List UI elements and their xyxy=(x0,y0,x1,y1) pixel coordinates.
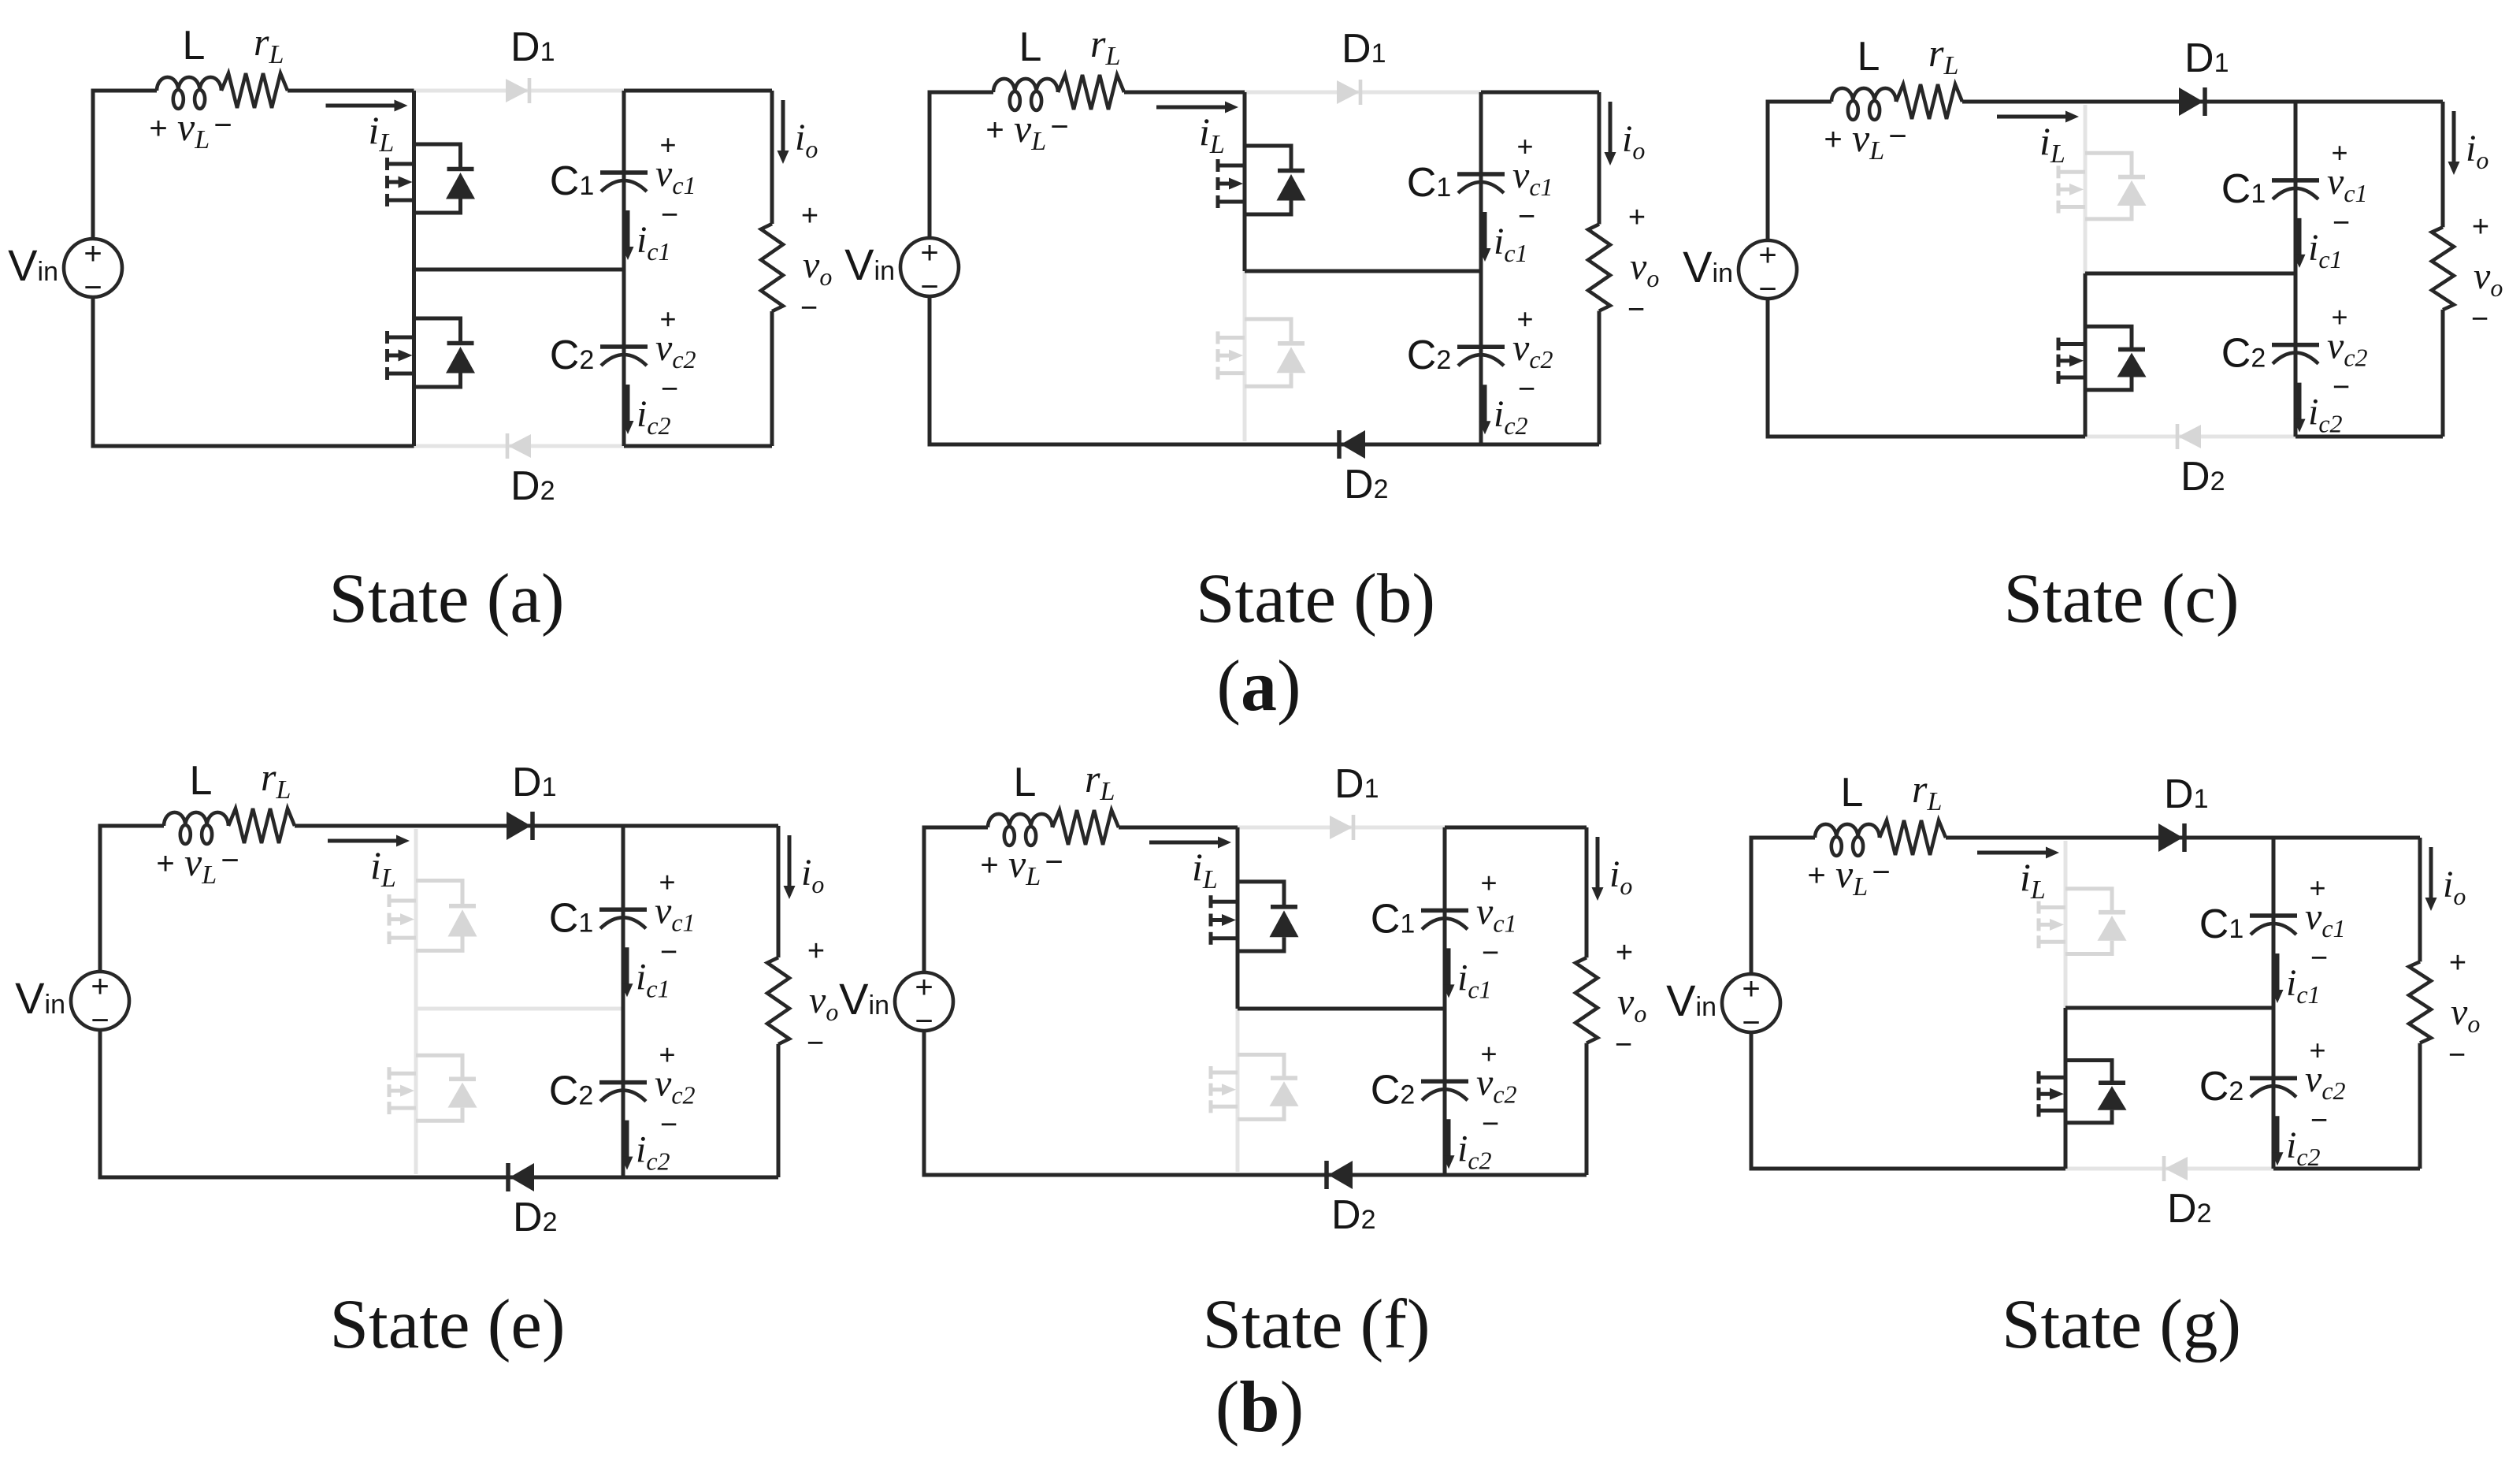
wire load bottom [e] xyxy=(777,1044,781,1177)
wire load bottom [f] xyxy=(1585,1043,1589,1175)
svg-text:C1: C1 xyxy=(1371,896,1415,942)
svg-text:vo: vo xyxy=(1617,981,1646,1028)
wire load top [c] xyxy=(2295,100,2443,104)
capacitor C1 [b] xyxy=(1457,174,1505,193)
resistor rL [a] xyxy=(221,73,288,108)
transistor Q1 (upper MOSFET) [a] xyxy=(388,144,476,213)
svg-text:−: − xyxy=(91,1003,109,1038)
current arrow ic1 [g] xyxy=(2276,953,2280,993)
current arrow ic2 [c] xyxy=(2298,383,2302,422)
svg-text:−: − xyxy=(660,935,677,968)
transistor Q2 (lower MOSFET) [g] xyxy=(2039,1061,2127,1123)
wire D2 branch [e] xyxy=(416,1176,623,1180)
svg-text:State (f): State (f) xyxy=(1202,1286,1430,1363)
svg-text:C2: C2 xyxy=(550,333,594,378)
svg-text:−: − xyxy=(2333,371,2350,404)
wire bus bottom segment [c] xyxy=(2084,273,2088,437)
current arrow io [b] xyxy=(1609,102,1613,155)
wire middle (bus to capacitors) [b] xyxy=(1245,269,1481,273)
wire left bottom [e] xyxy=(100,1030,416,1177)
svg-text:C2: C2 xyxy=(2199,1064,2244,1110)
resistor rL [g] xyxy=(1880,820,1946,855)
svg-text:+: + xyxy=(801,199,818,232)
current arrow ic1 [f] xyxy=(1447,948,1451,987)
svg-text:+: + xyxy=(985,113,1004,147)
svg-text:vL: vL xyxy=(184,840,217,890)
svg-text:vL: vL xyxy=(1014,106,1046,156)
current arrow iL [f] xyxy=(1149,841,1221,845)
svg-text:vL: vL xyxy=(1852,116,1884,165)
svg-text:State (a): State (a) xyxy=(329,560,565,637)
wire D2 branch [g] xyxy=(2065,1167,2273,1171)
wire load top [e] xyxy=(623,824,778,828)
wire D2 branch [c] xyxy=(2085,435,2295,439)
svg-text:vL: vL xyxy=(1835,852,1868,901)
wire capacitor branch [c] xyxy=(2294,102,2298,437)
load resistor [b] xyxy=(1588,225,1610,311)
wire bus bottom segment [b] xyxy=(1243,271,1247,441)
wire top (rL to bus) [g] xyxy=(1946,836,2065,840)
svg-text:−: − xyxy=(661,373,678,406)
current arrow ic1 [a] xyxy=(626,210,630,250)
svg-text:+: + xyxy=(91,969,109,1004)
inductor L [b] xyxy=(993,79,1058,92)
svg-text:vo: vo xyxy=(803,244,832,291)
svg-text:D2: D2 xyxy=(1344,462,1388,507)
svg-text:vL: vL xyxy=(177,105,210,154)
capacitor C2 [b] xyxy=(1457,347,1505,366)
current arrow ic2 [b] xyxy=(1483,385,1487,424)
wire top (rL to bus) [b] xyxy=(1124,91,1245,95)
svg-text:−: − xyxy=(2310,1104,2328,1137)
current arrow ic1 [b] xyxy=(1483,212,1487,251)
wire D1 branch [g] xyxy=(2065,836,2273,840)
current arrow ic2 [e] xyxy=(625,1121,629,1160)
svg-text:+: + xyxy=(920,236,938,270)
svg-text:L: L xyxy=(1014,760,1037,805)
svg-text:+: + xyxy=(980,848,998,883)
svg-text:−: − xyxy=(1482,936,1499,969)
svg-text:(a): (a) xyxy=(1216,645,1301,726)
current arrow io [c] xyxy=(2452,111,2456,165)
wire capacitor branch [b] xyxy=(1479,92,1483,444)
diode D2 [e] xyxy=(510,1163,534,1191)
wire capacitor branch [e] xyxy=(622,826,625,1177)
diode D2 [f] xyxy=(1328,1161,1353,1189)
transistor Q1 (upper MOSFET) [c] xyxy=(2058,153,2147,219)
current arrow io [f] xyxy=(1596,837,1600,890)
load resistor [g] xyxy=(2409,961,2431,1043)
svg-text:rL: rL xyxy=(1928,31,1958,80)
wire left bottom [a] xyxy=(93,297,414,446)
svg-text:iL: iL xyxy=(2039,119,2065,169)
svg-text:rL: rL xyxy=(1090,21,1120,71)
svg-text:D2: D2 xyxy=(2180,454,2225,500)
resistor rL [f] xyxy=(1052,810,1119,845)
voltage source Vin [c] xyxy=(1739,240,1797,299)
wire bottom right [e] xyxy=(623,1176,778,1180)
svg-text:D2: D2 xyxy=(2167,1186,2211,1232)
svg-text:−: − xyxy=(2333,206,2350,240)
transistor Q1 (upper MOSFET) [e] xyxy=(389,881,477,951)
svg-text:vo: vo xyxy=(1630,246,1659,292)
svg-text:−: − xyxy=(2471,303,2488,336)
capacitor C1 [c] xyxy=(2272,180,2319,199)
wire bus top segment [a] xyxy=(412,91,416,269)
svg-text:State (e): State (e) xyxy=(330,1286,566,1363)
svg-text:−: − xyxy=(1518,200,1535,233)
wire middle (bus to capacitors) [f] xyxy=(1238,1007,1445,1011)
svg-text:rL: rL xyxy=(1912,767,1942,816)
current arrow io [e] xyxy=(788,835,792,889)
transistor Q1 (upper MOSFET) [b] xyxy=(1218,146,1306,214)
inductor L [g] xyxy=(1815,824,1880,838)
wire bottom right [f] xyxy=(1445,1173,1587,1177)
svg-text:State (c): State (c) xyxy=(2004,560,2240,637)
load resistor [c] xyxy=(2432,227,2454,310)
svg-text:+: + xyxy=(1807,858,1825,893)
svg-text:io: io xyxy=(801,852,824,898)
diode D1 [g] xyxy=(2158,823,2183,852)
inductor L [e] xyxy=(164,812,228,826)
svg-text:Vin: Vin xyxy=(839,974,889,1024)
wire middle (bus to capacitors) [g] xyxy=(2065,1006,2273,1010)
svg-text:+: + xyxy=(1742,972,1760,1006)
capacitor C1 [e] xyxy=(599,909,647,928)
wire middle (bus to capacitors) [c] xyxy=(2085,272,2295,276)
wire load bottom [g] xyxy=(2418,1043,2422,1169)
svg-text:C2: C2 xyxy=(2221,331,2266,377)
svg-text:+: + xyxy=(2449,946,2466,979)
svg-text:State (b): State (b) xyxy=(1196,560,1435,637)
svg-text:vo: vo xyxy=(809,979,838,1026)
svg-text:D1: D1 xyxy=(512,760,556,805)
wire top (rL to bus) [e] xyxy=(295,824,416,828)
svg-text:+: + xyxy=(1616,936,1633,969)
inductor L [f] xyxy=(988,814,1052,827)
current arrow io [a] xyxy=(781,100,785,154)
wire bottom right [g] xyxy=(2273,1167,2420,1171)
svg-text:D1: D1 xyxy=(2184,35,2229,81)
svg-text:C2: C2 xyxy=(1371,1067,1415,1113)
svg-text:Vin: Vin xyxy=(1683,242,1733,292)
current arrow iL [a] xyxy=(326,104,398,108)
svg-text:(b): (b) xyxy=(1215,1366,1304,1447)
capacitor C2 [c] xyxy=(2272,345,2319,364)
resistor rL [c] xyxy=(1896,84,1962,119)
svg-text:rL: rL xyxy=(254,20,284,69)
svg-text:−: − xyxy=(1050,110,1068,144)
svg-text:−: − xyxy=(920,269,938,304)
wire capacitor branch [f] xyxy=(1443,827,1447,1175)
svg-text:vL: vL xyxy=(1008,842,1041,891)
wire bus top segment [e] xyxy=(414,829,418,1009)
wire top (rL to bus) [f] xyxy=(1119,826,1238,830)
svg-text:−: − xyxy=(1045,845,1063,879)
svg-text:−: − xyxy=(1615,1028,1632,1061)
wire load bottom [a] xyxy=(770,311,774,446)
transistor Q2 (lower MOSFET) [c] xyxy=(2058,326,2147,389)
svg-text:io: io xyxy=(2466,128,2488,174)
svg-text:−: − xyxy=(1482,1107,1499,1140)
svg-text:+: + xyxy=(1758,238,1776,273)
wire left bottom [c] xyxy=(1768,299,2085,437)
svg-text:−: − xyxy=(213,108,232,143)
wire left top (Vin to inductor) [f] xyxy=(924,827,988,972)
wire left top (Vin to inductor) [c] xyxy=(1768,102,1832,240)
svg-text:−: − xyxy=(1888,119,1906,154)
svg-text:+: + xyxy=(149,111,167,146)
svg-text:C2: C2 xyxy=(549,1069,593,1114)
svg-text:D1: D1 xyxy=(2164,771,2208,817)
capacitor C1 [a] xyxy=(600,173,648,191)
wire left bottom [f] xyxy=(924,1031,1238,1175)
wire load top [a] xyxy=(624,89,772,93)
wire load top [f] xyxy=(1445,826,1587,830)
svg-text:−: − xyxy=(1518,373,1535,406)
current arrow ic2 [a] xyxy=(626,385,630,424)
svg-text:C1: C1 xyxy=(550,158,594,204)
svg-text:+: + xyxy=(156,846,174,881)
transistor Q2 (lower MOSFET) [f] xyxy=(1211,1054,1299,1119)
svg-text:L: L xyxy=(1858,34,1880,80)
svg-text:Vin: Vin xyxy=(15,973,65,1023)
voltage source Vin [g] xyxy=(1722,974,1780,1032)
wire bus bottom segment [e] xyxy=(414,1009,418,1174)
capacitor C2 [a] xyxy=(600,347,648,366)
svg-text:io: io xyxy=(2443,864,2466,910)
wire left top (Vin to inductor) [a] xyxy=(93,91,157,239)
wire left top (Vin to inductor) [g] xyxy=(1751,838,1815,974)
svg-text:rL: rL xyxy=(1085,756,1115,806)
svg-text:−: − xyxy=(1872,855,1890,890)
svg-text:L: L xyxy=(1019,24,1042,70)
svg-text:−: − xyxy=(84,270,102,305)
capacitor C2 [e] xyxy=(599,1083,647,1102)
capacitor C2 [g] xyxy=(2250,1078,2297,1097)
svg-text:C1: C1 xyxy=(549,895,593,941)
diode D2 [c] xyxy=(2178,425,2201,448)
voltage source Vin [f] xyxy=(895,972,953,1031)
diode D1 [b] xyxy=(1337,80,1360,104)
svg-text:L: L xyxy=(183,23,206,69)
voltage source Vin [a] xyxy=(64,239,122,297)
inductor L [c] xyxy=(1832,88,1896,102)
wire D2 branch [b] xyxy=(1245,443,1481,447)
svg-text:io: io xyxy=(1609,853,1632,900)
wire top (rL to bus) [c] xyxy=(1962,100,2085,104)
wire bus top segment [g] xyxy=(2064,841,2068,1008)
svg-text:rL: rL xyxy=(261,755,291,805)
wire middle (bus to capacitors) [e] xyxy=(416,1007,623,1011)
wire bottom right [b] xyxy=(1481,443,1599,447)
svg-text:−: − xyxy=(800,292,818,325)
wire middle (bus to capacitors) [a] xyxy=(414,268,625,272)
current arrow ic1 [c] xyxy=(2298,218,2302,258)
svg-text:iL: iL xyxy=(1192,845,1218,894)
wire load top [b] xyxy=(1481,91,1599,95)
svg-text:+: + xyxy=(1628,201,1646,234)
svg-text:−: − xyxy=(1627,293,1645,326)
wire bottom right [c] xyxy=(2295,435,2443,439)
svg-text:D1: D1 xyxy=(1334,761,1379,807)
current arrow ic2 [g] xyxy=(2276,1116,2280,1155)
svg-text:iL: iL xyxy=(2020,855,2046,905)
svg-text:State (g): State (g) xyxy=(2002,1286,2241,1363)
wire D1 branch [a] xyxy=(414,89,625,93)
svg-text:C2: C2 xyxy=(1407,333,1451,378)
wire D2 branch [a] xyxy=(414,444,625,448)
wire bus bottom segment [f] xyxy=(1236,1009,1240,1172)
svg-text:vo: vo xyxy=(2451,991,2480,1038)
svg-text:D2: D2 xyxy=(510,463,555,509)
diode D1 [e] xyxy=(507,812,531,840)
wire bus top segment [b] xyxy=(1243,92,1247,271)
wire D1 branch [c] xyxy=(2085,100,2295,104)
inductor L [a] xyxy=(157,77,221,91)
capacitor C2 [f] xyxy=(1421,1081,1468,1100)
wire top (rL to bus) [a] xyxy=(288,89,414,93)
diode D2 [a] xyxy=(508,434,531,458)
svg-text:+: + xyxy=(1824,122,1842,157)
svg-text:vo: vo xyxy=(2474,255,2503,302)
svg-text:Vin: Vin xyxy=(8,240,58,290)
current arrow ic2 [f] xyxy=(1447,1119,1451,1158)
wire left top (Vin to inductor) [b] xyxy=(930,92,993,238)
transistor Q2 (lower MOSFET) [a] xyxy=(388,318,476,387)
wire D1 branch [b] xyxy=(1245,91,1481,95)
svg-text:C1: C1 xyxy=(2199,901,2244,947)
transistor Q2 (lower MOSFET) [b] xyxy=(1218,319,1306,386)
svg-text:L: L xyxy=(1841,770,1864,816)
wire left bottom [g] xyxy=(1751,1032,2065,1169)
svg-text:Vin: Vin xyxy=(1666,976,1716,1025)
wire capacitor branch [a] xyxy=(622,91,626,446)
svg-text:−: − xyxy=(1742,1005,1760,1040)
wire D1 branch [f] xyxy=(1238,826,1445,830)
svg-text:C1: C1 xyxy=(2221,166,2266,212)
svg-text:−: − xyxy=(915,1004,933,1039)
wire bus bottom segment [g] xyxy=(2064,1008,2068,1169)
capacitor C1 [f] xyxy=(1421,910,1468,929)
current arrow ic1 [e] xyxy=(625,947,629,987)
load resistor [e] xyxy=(767,957,789,1044)
svg-text:−: − xyxy=(1758,272,1776,307)
wire D2 branch [f] xyxy=(1238,1173,1445,1177)
svg-text:−: − xyxy=(807,1027,824,1060)
voltage source Vin [b] xyxy=(900,238,959,296)
resistor rL [e] xyxy=(228,808,295,843)
diode D1 [f] xyxy=(1330,816,1353,839)
wire load bottom [b] xyxy=(1598,311,1601,445)
diode D2 [b] xyxy=(1341,430,1365,459)
svg-text:C1: C1 xyxy=(1407,160,1451,206)
current arrow iL [c] xyxy=(1997,115,2069,119)
svg-text:−: − xyxy=(661,199,678,232)
svg-text:D1: D1 xyxy=(510,24,555,70)
svg-text:D1: D1 xyxy=(1342,26,1386,72)
svg-text:D2: D2 xyxy=(1331,1192,1375,1238)
svg-text:+: + xyxy=(2472,210,2489,243)
current arrow iL [g] xyxy=(1977,851,2049,855)
transistor Q1 (upper MOSFET) [f] xyxy=(1211,882,1299,951)
wire bus top segment [c] xyxy=(2084,105,2088,273)
svg-text:io: io xyxy=(1622,118,1645,165)
diode D1 [a] xyxy=(506,79,529,102)
current arrow iL [e] xyxy=(328,839,399,843)
svg-text:Vin: Vin xyxy=(844,240,895,289)
transistor Q2 (lower MOSFET) [e] xyxy=(389,1055,477,1121)
svg-text:−: − xyxy=(660,1109,677,1142)
transistor Q1 (upper MOSFET) [g] xyxy=(2039,889,2127,954)
svg-text:io: io xyxy=(795,117,818,163)
load resistor [a] xyxy=(761,224,783,311)
svg-text:+: + xyxy=(84,236,102,271)
load resistor [f] xyxy=(1575,957,1598,1043)
svg-text:L: L xyxy=(190,758,213,804)
wire bus top segment [f] xyxy=(1236,827,1240,1009)
svg-text:D2: D2 xyxy=(513,1195,557,1240)
resistor rL [b] xyxy=(1058,75,1124,110)
capacitor C1 [g] xyxy=(2250,916,2297,935)
svg-text:+: + xyxy=(915,970,933,1005)
current arrow iL [b] xyxy=(1156,106,1228,110)
wire bottom right [a] xyxy=(624,444,772,448)
diode D2 [g] xyxy=(2165,1157,2188,1180)
wire bus bottom segment [a] xyxy=(412,269,416,446)
wire left top (Vin to inductor) [e] xyxy=(100,826,164,972)
voltage source Vin [e] xyxy=(71,972,129,1030)
wire D1 branch [e] xyxy=(416,824,623,828)
wire capacitor branch [g] xyxy=(2272,838,2276,1169)
wire load top [g] xyxy=(2273,836,2420,840)
svg-text:−: − xyxy=(2448,1039,2466,1072)
wire left bottom [b] xyxy=(930,296,1245,444)
diode D1 [c] xyxy=(2179,87,2203,116)
svg-text:iL: iL xyxy=(1199,110,1225,159)
svg-text:−: − xyxy=(2310,942,2328,975)
wire load bottom [c] xyxy=(2441,310,2445,437)
svg-text:+: + xyxy=(807,935,825,968)
svg-text:iL: iL xyxy=(369,108,395,158)
svg-text:iL: iL xyxy=(370,843,396,893)
current arrow io [g] xyxy=(2429,847,2433,901)
svg-text:−: − xyxy=(221,843,239,878)
